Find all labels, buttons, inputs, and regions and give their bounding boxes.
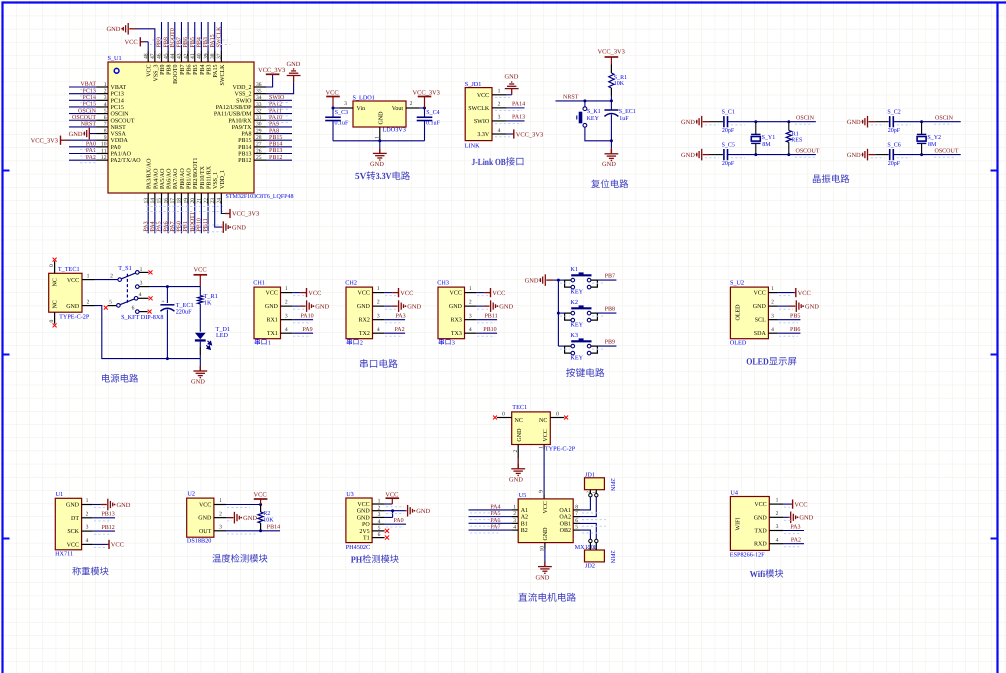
connector CH3 body: [438, 287, 465, 339]
power GND at DS18B20: [228, 517, 234, 519]
svg-text:8: 8: [575, 504, 578, 510]
wire net PC14 left of U1: [69, 99, 97, 101]
U1 bottom pin 18 stub: [180, 193, 182, 204]
svg-text:3.3V: 3.3V: [376, 172, 392, 182]
wire HX711 VCC: [93, 543, 108, 545]
svg-text:PB6: PB6: [187, 65, 193, 75]
svg-text:GND: GND: [499, 303, 513, 310]
svg-text:VSS_1: VSS_1: [213, 172, 219, 189]
TEC1 GND pin stub: [517, 445, 519, 459]
U1 left pin 6 stub: [97, 119, 109, 121]
svg-text:PA9/TX: PA9/TX: [232, 125, 252, 131]
wire U4 VCC: [783, 503, 791, 505]
svg-text:VDD_1: VDD_1: [220, 170, 226, 189]
svg-text:4: 4: [285, 327, 288, 333]
svg-text:PB9: PB9: [160, 65, 166, 75]
junction reset node: [610, 99, 613, 102]
svg-text:B1: B1: [521, 521, 528, 527]
wire net PA10 right of U1: [266, 119, 292, 121]
U3 pin 4 stub: [372, 523, 385, 525]
wire CH1 TX: [292, 332, 313, 334]
wire net PB3 above U1: [207, 22, 209, 51]
capacitor S_EC1: [610, 101, 612, 110]
svg-text:2: 2: [110, 274, 113, 280]
wire JD1 pin1 to GND: [507, 94, 512, 96]
svg-text:VCC: VCC: [477, 93, 489, 99]
svg-text:PB10: PB10: [483, 327, 496, 333]
svg-text:3: 3: [452, 340, 455, 346]
connector JD2 body: [585, 550, 605, 562]
junction node Vin: [332, 107, 335, 110]
svg-text:J-Link OB: J-Link OB: [472, 158, 506, 168]
svg-text:VSS_2: VSS_2: [234, 92, 251, 98]
wire top to OSCIN: [893, 121, 960, 123]
wire net PA4: [469, 509, 512, 511]
LDO U S_LDO1 body: [353, 101, 406, 127]
DS18B20 pin 3 stub: [214, 530, 226, 532]
U1 bottom pin 16 stub: [167, 193, 169, 204]
svg-text:GND: GND: [191, 379, 205, 386]
wire CH2 RX: [384, 319, 405, 321]
svg-text:CH2: CH2: [345, 279, 357, 286]
wire net PB4 above U1: [200, 22, 202, 51]
U5 pin 1 stub: [511, 509, 518, 511]
switch K2 actuator: [571, 307, 591, 309]
wire DS18B20 VCC: [226, 504, 261, 506]
wire top to OSCIN: [728, 121, 816, 123]
svg-text:PB13: PB13: [269, 148, 282, 154]
svg-text:0: 0: [49, 264, 55, 267]
svg-text:17: 17: [170, 198, 176, 204]
U1 top pin 37 (SWCLK) stub: [220, 51, 222, 62]
wire net PB13 right of U1: [266, 153, 292, 155]
svg-text:PA15: PA15: [210, 34, 216, 47]
title weighing: [72, 567, 81, 575]
U4 pin 1 stub: [769, 503, 783, 505]
junction xtal bot: [754, 153, 757, 156]
svg-text:25: 25: [256, 155, 262, 161]
connector T_TEC1 body: [49, 273, 82, 312]
svg-text:1uF: 1uF: [619, 116, 629, 122]
svg-text:PA10/RX: PA10/RX: [228, 118, 252, 124]
svg-text:4: 4: [498, 128, 501, 134]
svg-text:VCC: VCC: [194, 267, 207, 274]
svg-text:1K: 1K: [204, 299, 212, 306]
wire net BOOT0 above U1: [174, 22, 176, 51]
junction OUT pullup: [259, 529, 262, 532]
S_LDO1 pin 1 GND stub: [379, 127, 381, 141]
svg-text:S_JD1: S_JD1: [465, 81, 482, 88]
power GND at CH2: [391, 305, 397, 307]
svg-text:2: 2: [771, 300, 774, 306]
svg-text:VCC: VCC: [754, 502, 766, 508]
title temperature: [212, 554, 221, 562]
connector CH2 body: [346, 287, 373, 339]
svg-text:PB7: PB7: [177, 37, 183, 47]
svg-text:K2: K2: [570, 299, 578, 306]
wire HX711 SCK: [93, 530, 115, 532]
wire net BOOT1 below U1: [194, 204, 196, 233]
power VCC at CH3: [484, 292, 490, 294]
U4 pin 3 stub: [769, 530, 783, 532]
svg-text:U2: U2: [187, 491, 195, 498]
svg-text:PB12: PB12: [269, 155, 282, 161]
svg-text:VCC: VCC: [753, 291, 765, 297]
capacitor S_C4: [424, 108, 426, 117]
wire CH3 GND: [476, 305, 483, 307]
svg-text:PB8: PB8: [605, 307, 615, 313]
U1 left pin 4 stub: [97, 106, 109, 108]
capacitor S_C3: [332, 108, 334, 117]
svg-text:PA10: PA10: [269, 115, 282, 121]
svg-text:4: 4: [377, 327, 380, 333]
svg-text:KEY: KEY: [570, 355, 583, 362]
T_S1 contact 6: [136, 310, 140, 314]
svg-text:2: 2: [469, 300, 472, 306]
svg-text:PH4502C: PH4502C: [346, 544, 370, 551]
svg-text:RX3: RX3: [451, 318, 462, 324]
svg-text:GND: GND: [681, 119, 695, 126]
svg-text:PB1/AO: PB1/AO: [187, 168, 193, 189]
switch K2 right bracket: [591, 313, 598, 320]
K1 dash artifacts: [560, 282, 570, 284]
wire JD1-1 to OA1: [580, 497, 590, 510]
CH1 pin 1 stub: [281, 292, 293, 294]
U1 right pin 32 stub: [254, 113, 266, 115]
wire K3 out: [597, 345, 616, 347]
svg-text:3: 3: [377, 313, 380, 319]
HX711 dash artifacts: [94, 507, 105, 509]
U1 bottom pin 22 stub: [207, 193, 209, 204]
svg-text:PA6: PA6: [490, 518, 500, 524]
U1 right pin 35 stub: [254, 93, 266, 95]
U5 pin 7 stub: [573, 516, 580, 518]
svg-text:ESP8266-12F: ESP8266-12F: [730, 552, 765, 559]
S_LDO1 pin 2 Vout stub: [406, 107, 419, 109]
svg-text:PA5: PA5: [157, 221, 163, 231]
svg-text:1: 1: [87, 273, 90, 279]
svg-text:VCC: VCC: [266, 291, 278, 297]
svg-text:K3: K3: [570, 332, 578, 339]
svg-text:20pF: 20pF: [888, 128, 901, 134]
T_S1 contact 5-4: [104, 306, 108, 310]
U1 left pin 10 stub: [97, 146, 109, 148]
junction xtal bot: [920, 153, 923, 156]
svg-text:1: 1: [771, 286, 774, 292]
svg-text:PA7/AO: PA7/AO: [173, 168, 179, 189]
svg-text:5V: 5V: [355, 172, 366, 182]
svg-text:NRST: NRST: [81, 122, 97, 128]
svg-text:NC: NC: [53, 300, 59, 308]
svg-text:S_C1: S_C1: [722, 110, 735, 116]
svg-text:GND: GND: [602, 161, 616, 168]
svg-text:GND: GND: [805, 303, 819, 310]
svg-text:8M: 8M: [928, 142, 937, 148]
svg-text:Wifi: Wifi: [750, 569, 766, 579]
svg-text:0: 0: [502, 411, 505, 417]
svg-text:PA0: PA0: [86, 142, 96, 148]
svg-text:3: 3: [771, 313, 774, 319]
svg-text:VSSA: VSSA: [111, 132, 127, 138]
switch K2 left bracket: [565, 313, 571, 320]
T_TEC1 pin2 stub: [82, 305, 95, 307]
svg-text:1: 1: [86, 498, 89, 504]
wire PA13: [507, 120, 525, 122]
wire net PA12 right of U1: [266, 106, 292, 108]
svg-text:TXD: TXD: [754, 529, 767, 535]
svg-text:PB9: PB9: [605, 340, 615, 346]
wire net PB0 below U1: [180, 204, 182, 233]
svg-text:48: 48: [143, 53, 149, 59]
svg-text:0: 0: [49, 320, 55, 323]
T_TEC1 pin1 stub: [82, 279, 95, 281]
junction key rail K1: [557, 279, 560, 282]
svg-text:2PIN: 2PIN: [609, 478, 615, 491]
U5 pin 5 stub: [573, 529, 580, 531]
svg-text:VCC: VCC: [492, 290, 505, 297]
U1 top pin 45 (PB8) stub: [167, 51, 169, 62]
svg-text:9: 9: [104, 135, 107, 141]
svg-text:KEY: KEY: [587, 116, 600, 122]
svg-text:1: 1: [469, 286, 472, 292]
svg-text:NRST: NRST: [111, 125, 127, 131]
svg-text:PB0/AO: PB0/AO: [180, 168, 186, 189]
svg-text:K1: K1: [570, 266, 578, 273]
svg-text:PA0: PA0: [111, 145, 121, 151]
svg-text:11: 11: [101, 148, 107, 154]
svg-text:PA13: PA13: [512, 115, 525, 121]
svg-text:2: 2: [378, 505, 381, 511]
junction key rail K2: [557, 312, 560, 315]
wire net PA7 below U1: [174, 204, 176, 233]
U1 left pin 2 stub: [97, 93, 109, 95]
power GND above pin35: [293, 76, 295, 83]
wire net PB7 above U1: [180, 22, 182, 51]
svg-text:S_K1: S_K1: [587, 109, 601, 115]
svg-text:A1: A1: [521, 508, 528, 514]
svg-text:KEY: KEY: [570, 289, 583, 296]
svg-text:S_Y1: S_Y1: [762, 135, 776, 141]
wire DS18B20 OUT: [226, 530, 280, 532]
svg-text:PB5: PB5: [790, 313, 800, 319]
U3 dash artifacts: [386, 506, 404, 508]
svg-text:18: 18: [177, 198, 183, 204]
wire net OSCOUT left of U1: [69, 119, 97, 121]
U1 pin-1 marker circle: [114, 68, 119, 73]
svg-text:220uF: 220uF: [176, 308, 192, 315]
wire gnd-cap bot: [875, 154, 888, 156]
T_TEC1 top NC pin: [54, 261, 56, 273]
svg-text:0.1uF: 0.1uF: [426, 120, 441, 126]
svg-text:U3: U3: [346, 491, 354, 498]
U1 left pin 3 stub: [97, 99, 109, 101]
svg-text:TEC1: TEC1: [512, 404, 527, 411]
U3 pin 6 stub: [372, 537, 385, 539]
wire net SWIO right of U1: [266, 99, 292, 101]
wire HX711 DT: [93, 517, 115, 519]
svg-text:PB12: PB12: [238, 158, 251, 164]
switch K3 right bracket: [591, 346, 598, 353]
svg-text:PB5: PB5: [193, 65, 199, 75]
U1 top dash artifacts: [150, 44, 230, 46]
svg-text:SWIO: SWIO: [269, 95, 285, 101]
svg-text:16: 16: [163, 198, 169, 204]
S_U2 pin 1 stub: [768, 292, 777, 294]
svg-text:KEY: KEY: [570, 322, 583, 329]
title keys: [566, 368, 575, 377]
svg-text:3: 3: [285, 313, 288, 319]
title crystal: [813, 175, 821, 183]
wire net PB5 above U1: [194, 22, 196, 51]
svg-text:45: 45: [163, 53, 169, 59]
svg-text:GND: GND: [370, 161, 384, 168]
switch K1 right bracket: [591, 280, 598, 287]
svg-text:13: 13: [143, 198, 149, 204]
wire net NRST left of U1: [69, 126, 97, 128]
wire R1 to node: [610, 96, 612, 101]
wire VCC to Vin / C3 node: [333, 107, 340, 109]
svg-text:PA5: PA5: [490, 511, 500, 517]
U1 right dash artifacts: [268, 102, 290, 104]
wire OLED GND: [778, 305, 789, 307]
svg-text:41: 41: [190, 53, 196, 59]
svg-text:20: 20: [190, 198, 196, 204]
svg-text:PB11: PB11: [484, 313, 497, 319]
S_U2 pin 2 stub: [768, 305, 777, 307]
power GND at OLED: [789, 305, 796, 307]
svg-text:2: 2: [410, 101, 413, 107]
power GND below U5: [544, 549, 546, 565]
svg-text:S_U2: S_U2: [730, 279, 744, 286]
U1 left pin 7 stub: [97, 126, 109, 128]
svg-text:JD1: JD1: [585, 471, 595, 478]
svg-text:2: 2: [513, 450, 519, 453]
svg-text:PB8: PB8: [163, 37, 169, 47]
U1 bottom dash artifacts: [146, 211, 224, 213]
svg-text:PA11: PA11: [269, 108, 282, 114]
svg-text:OLED: OLED: [746, 358, 769, 368]
svg-text:5: 5: [575, 525, 578, 531]
svg-text:S_C4: S_C4: [426, 110, 439, 116]
U3 pin 1 stub: [372, 503, 385, 505]
wire net PA8 right of U1: [266, 133, 292, 135]
power GND at CH1: [299, 305, 305, 307]
svg-text:7: 7: [104, 122, 107, 128]
power VCC at OLED: [795, 288, 797, 297]
U1 bottom pin 23 stub: [214, 193, 216, 204]
CH2 dash artifacts: [385, 295, 396, 297]
svg-text:2PIN: 2PIN: [609, 550, 615, 563]
wire net PB1 below U1: [187, 204, 189, 233]
connector TEC1 body: [512, 412, 551, 445]
U1 right pin 29 stub: [254, 133, 266, 135]
svg-text:4: 4: [86, 538, 89, 544]
svg-text:6: 6: [132, 306, 135, 312]
svg-text:2: 2: [104, 88, 107, 94]
svg-text:2: 2: [86, 511, 89, 517]
svg-text:PC13: PC13: [111, 92, 124, 98]
U1 top pin 48 (VCC) stub: [147, 51, 149, 62]
svg-text:SCL: SCL: [755, 318, 766, 324]
U1 right pin 33 stub: [254, 106, 266, 108]
svg-text:VCC_3V3: VCC_3V3: [516, 131, 543, 138]
svg-text:23: 23: [210, 198, 216, 204]
svg-text:PA7: PA7: [170, 221, 176, 231]
resistor R2: [260, 505, 262, 513]
svg-text:1: 1: [776, 498, 779, 504]
svg-text:10: 10: [101, 142, 107, 148]
switch K1 left bracket: [565, 280, 571, 287]
svg-text:OA1: OA1: [559, 508, 571, 514]
wire JD1-2 to OA2: [580, 497, 596, 517]
CH2 pin 2 stub: [373, 305, 385, 307]
U1 right pin 34 stub: [254, 99, 266, 101]
svg-text:S_KFT DIP-8X8: S_KFT DIP-8X8: [121, 314, 163, 321]
svg-text:42: 42: [183, 53, 189, 59]
svg-text:0: 0: [556, 411, 559, 417]
U5 pin 3 stub: [511, 522, 518, 524]
wire net PA15 above U1: [214, 22, 216, 51]
svg-text:SWIO: SWIO: [236, 98, 252, 104]
svg-text:VCC_3V3: VCC_3V3: [598, 49, 625, 56]
J JD1 body: [465, 88, 492, 141]
svg-text:PB0: PB0: [177, 221, 183, 231]
U1 bottom pin 17 stub: [174, 193, 176, 204]
svg-text:GND: GND: [198, 516, 212, 522]
U1 bottom pin 21 stub: [200, 193, 202, 204]
wire net PB14 right of U1: [266, 146, 292, 148]
svg-text:6: 6: [378, 532, 381, 538]
svg-text:VCC: VCC: [357, 502, 369, 508]
U4 pin 4 stub: [769, 543, 783, 545]
svg-text:S_C2: S_C2: [887, 110, 900, 116]
svg-text:RX2: RX2: [359, 318, 370, 324]
CH2 pin 3 stub: [373, 319, 385, 321]
svg-text:PA2: PA2: [394, 327, 404, 333]
svg-text:PB2/BOOT1: PB2/BOOT1: [193, 158, 199, 189]
svg-text:3: 3: [378, 512, 381, 518]
wire HX711 GND: [93, 504, 101, 506]
svg-text:LINK: LINK: [465, 143, 480, 150]
svg-text:VCC: VCC: [147, 65, 153, 77]
svg-text:PA4: PA4: [150, 221, 156, 231]
svg-text:VCC: VCC: [308, 290, 321, 297]
wire NRST: [556, 100, 612, 102]
wire net SWCLK above U1: [220, 22, 222, 51]
T_S1 contact 2-1: [118, 278, 122, 282]
U4 ESP8266 body: [730, 497, 769, 551]
wire switch out to VCC node: [150, 286, 201, 288]
svg-text:VCC: VCC: [400, 290, 413, 297]
svg-text:19: 19: [183, 198, 189, 204]
svg-text:VDD_2: VDD_2: [233, 85, 252, 91]
wire CH1 RX: [292, 319, 313, 321]
U1 top pin 46 (PB9) stub: [161, 51, 163, 62]
svg-text:PA12/USB/DP: PA12/USB/DP: [216, 105, 252, 111]
wire net PA7: [469, 529, 512, 531]
svg-text:VBAT: VBAT: [80, 82, 96, 88]
U1 top pin 40 (PB4) stub: [200, 51, 202, 62]
svg-text:46: 46: [157, 53, 163, 59]
svg-text:PA0: PA0: [394, 518, 404, 524]
svg-text:3: 3: [776, 524, 779, 530]
svg-text:GND: GND: [536, 574, 550, 581]
TEC1 left NC pin: [497, 417, 512, 419]
power GND (reset): [610, 141, 612, 149]
resistor S_R1: [610, 65, 612, 74]
wire U4 GND: [783, 516, 788, 518]
CH1 dash artifacts: [293, 295, 304, 297]
